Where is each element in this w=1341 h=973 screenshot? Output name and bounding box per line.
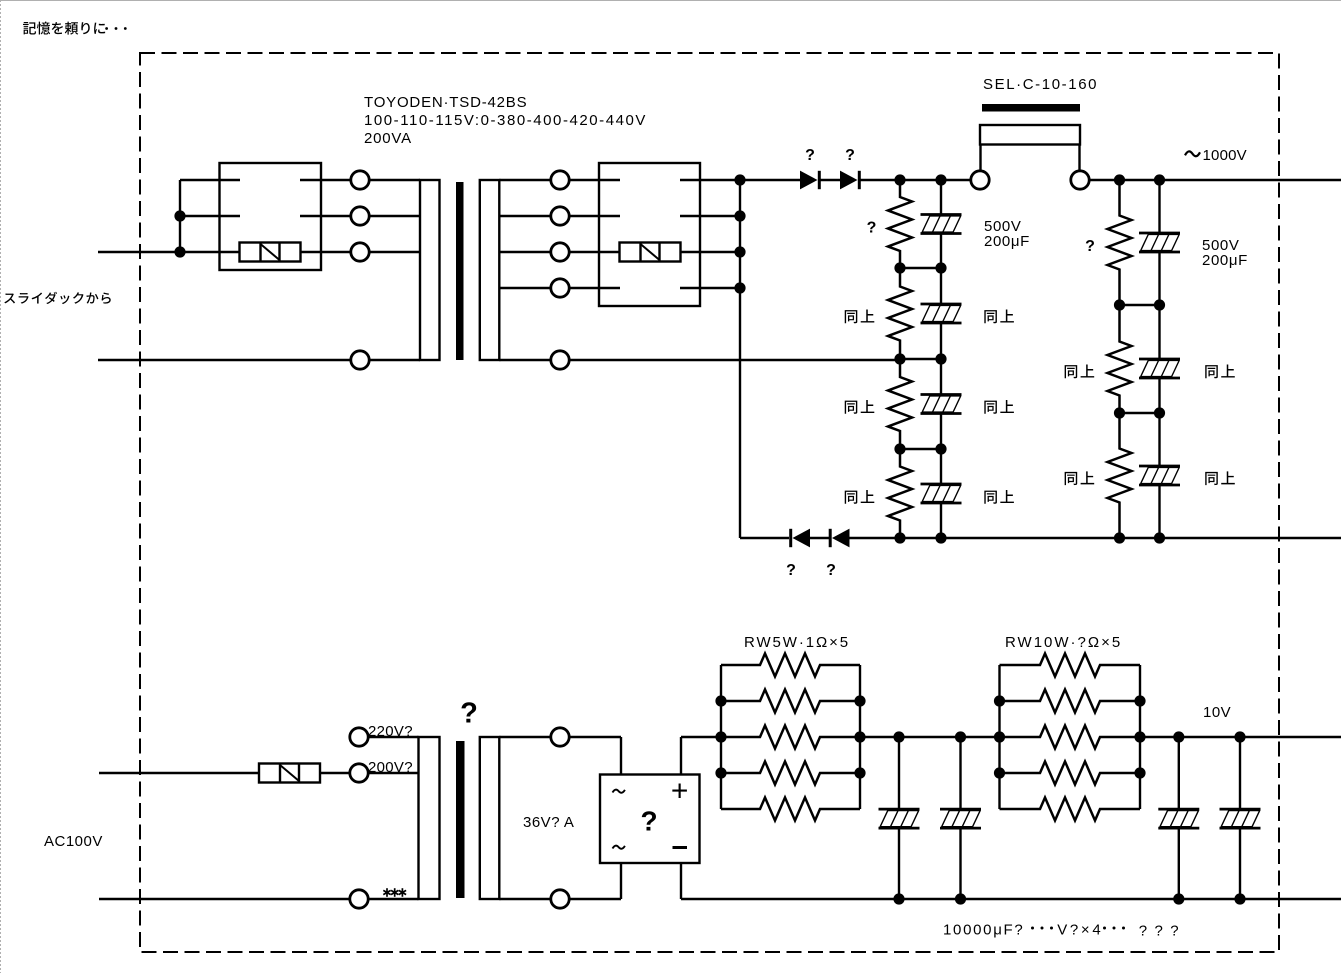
wire: TB1 out 3 (301, 251, 352, 253)
terminal: T1 primary tap 1 (351, 171, 369, 189)
wire: T1 sec common (499, 359, 551, 361)
resistor R10 (bank1) (721, 654, 860, 677)
svg-text:?: ? (640, 806, 657, 837)
node: bank1 left (715, 695, 726, 706)
wire: bottom return rail (850, 537, 1341, 539)
wire: plus to bank1 (681, 736, 721, 738)
node: ladder2 bottom R (1114, 532, 1125, 543)
label: tap *** asterisks (383, 888, 406, 897)
node: C11 bottom (1234, 893, 1245, 904)
resistor R12 (bank1) (721, 726, 860, 749)
terminal: T2 common (350, 890, 368, 908)
resistor R11 (bank1) (721, 690, 860, 713)
wire: bus corner to D3 (740, 537, 789, 539)
node: bus tap 4 (734, 282, 745, 293)
wire: T2 sec bottom (499, 898, 551, 900)
svg-text:+: + (671, 775, 689, 808)
node: C10 top (1173, 731, 1184, 742)
label: C6 同上 (1205, 365, 1235, 379)
wire: bridge AC in bottom (620, 863, 622, 899)
svg-text:?: ? (826, 562, 836, 579)
wire: T1 sec tap 2 (499, 215, 551, 217)
svg-text:?: ? (867, 220, 877, 237)
svg-text:?: ? (1085, 238, 1095, 255)
choke L1 core bar (982, 104, 1080, 112)
terminal: T1 primary common (351, 351, 369, 369)
fuse F2 (AC100V) (259, 764, 320, 783)
svg-text:RW5W·1Ω×5: RW5W·1Ω×5 (744, 634, 850, 651)
wire: TB2 in 1 (569, 179, 620, 181)
label: U1 AC in bottom ~ (613, 846, 625, 849)
diode D4 (830, 529, 849, 548)
resistor R13 (bank1) (721, 762, 860, 785)
diode D1 (800, 171, 819, 190)
bridge rectifier U1 body (600, 775, 700, 864)
diode D3 (791, 529, 810, 548)
node: bank2 left (994, 767, 1005, 778)
label: R7 同上 (1065, 471, 1095, 485)
wire: ladder1 row 4 link (900, 448, 941, 450)
node: bank2 right (1134, 731, 1145, 742)
terminal: T1 secondary tap 3 (551, 243, 569, 261)
svg-text:AC100V: AC100V (44, 833, 103, 850)
dashed border frame (140, 53, 1279, 952)
wire: TB1 out 1 (300, 179, 351, 181)
resistor R19 (bank2) (1000, 798, 1141, 821)
transformer T2 secondary winding (480, 737, 500, 899)
svg-text:TOYODEN·TSD-42BS: TOYODEN·TSD-42BS (364, 94, 527, 111)
fuse F3 (secondary) (620, 243, 681, 262)
node: C10 bottom (1173, 893, 1184, 904)
label: R4 同上 (845, 490, 875, 504)
svg-text:?: ? (786, 562, 796, 579)
node: bank1 left (715, 731, 726, 742)
wire: tap stub 420V (180, 215, 240, 217)
capacitor C11 10000uF (1220, 737, 1261, 899)
node: ladder2 row 2 R (1114, 299, 1125, 310)
terminal: T1 secondary common (551, 351, 569, 369)
wire: TB2 out 4 (680, 287, 740, 289)
node: ladder1 row 2 C (935, 262, 946, 273)
svg-text:?: ? (805, 147, 815, 164)
node: ladder1 row 3 C (935, 353, 946, 364)
transformer T1 primary winding (420, 180, 440, 360)
svg-text:SEL·C-10-160: SEL·C-10-160 (983, 76, 1098, 93)
svg-text:200μF: 200μF (1202, 252, 1248, 269)
wire: ladder1 row 2 link (900, 267, 941, 269)
terminal: T2 secondary top (551, 728, 569, 746)
node: ladder1 row 2 R (894, 262, 905, 273)
wire: D1 to D2 (819, 179, 840, 181)
wire: T2 sec bottom to bridge (569, 898, 621, 900)
capacitor C3 500V 200uF (921, 359, 962, 449)
wire: AC input line 2 (99, 898, 350, 900)
wire: TB2 out 3 (681, 251, 741, 253)
transformer T2 core (456, 741, 465, 898)
wire: T2 sec top to bridge (569, 736, 621, 738)
label: C7 同上 (1205, 471, 1235, 485)
wire: ladder1 row 3 link (900, 358, 941, 360)
capacitor C5 500V 200uF (1139, 180, 1180, 305)
capacitor C9 10000uF (940, 737, 981, 899)
node: ladder1 row 4 R (894, 443, 905, 454)
wire: ~1000V output rail (1089, 179, 1341, 181)
transformer T2 primary winding (419, 737, 440, 899)
label: caps note dots 1 (1031, 927, 1053, 930)
label: C2 同上 (984, 310, 1014, 324)
svg-text:10V: 10V (1203, 704, 1231, 721)
label: C3 同上 (984, 400, 1014, 414)
terminal: T2 secondary bottom (551, 890, 569, 908)
caption dots (105, 27, 127, 30)
resistor R14 (bank1) (721, 798, 860, 821)
svg-text:36V? A: 36V? A (523, 814, 574, 831)
node: C11 top (1234, 731, 1245, 742)
wire: U1 plus up (680, 737, 682, 775)
terminal: T1 secondary tap 4 (551, 279, 569, 297)
node: C9 top (955, 731, 966, 742)
wire: T1 sec tap 4 (499, 287, 551, 289)
wire: ladder2 row 3 link (1120, 412, 1160, 414)
wire: to T1 primary common (369, 359, 420, 361)
wire: 10V output rail (1140, 736, 1341, 738)
label: output ~1000V tilde (1185, 151, 1200, 156)
capacitor C1 500V 200uF (921, 180, 962, 268)
terminal: choke L1 right (1071, 171, 1089, 189)
node: bus tap 2 (734, 210, 745, 221)
node: bank2 right (1134, 767, 1145, 778)
wire: upper input line 2 (98, 359, 351, 361)
resistor R2 (bleeder) (888, 268, 912, 359)
terminal: T1 primary tap 3 (351, 243, 369, 261)
wire: common to T2 (368, 898, 419, 900)
resistor R6 (bleeder) (1108, 305, 1132, 413)
caption: 記憶を頼りに (23, 22, 105, 35)
wire: 220V tap to T2 (368, 736, 419, 738)
wire: TB2 out 2 (680, 215, 740, 217)
wire: to T1 primary 1 (369, 179, 420, 181)
node: bus tap 1 (734, 174, 745, 185)
svg-text:?: ? (460, 698, 478, 730)
resistor R7 (bleeder) (1108, 413, 1132, 538)
resistor R17 (bank2) (1000, 726, 1141, 749)
wire: tap feed vertical (179, 180, 181, 252)
node: bank2 left (994, 731, 1005, 742)
wire: to T1 primary 3 (369, 251, 420, 253)
capacitor C10 10000uF (1158, 737, 1199, 899)
node: ladder2 row 3 R (1114, 407, 1125, 418)
node: ladder1 bottom R (894, 532, 905, 543)
transformer T1 secondary winding (480, 180, 500, 360)
resistor R5 (bleeder) (1108, 180, 1132, 305)
label: R6 同上 (1065, 365, 1095, 379)
svg-text:200VA: 200VA (364, 130, 412, 147)
svg-text:200μF: 200μF (984, 233, 1030, 250)
svg-text:1000V: 1000V (1203, 147, 1247, 164)
wire: T1 sec tap 3 (499, 251, 551, 253)
terminal: T1 secondary tap 1 (551, 171, 569, 189)
wire: 200V tap to T2 (368, 772, 419, 774)
bank1 left rail (720, 665, 722, 809)
node: ladder2 row 3 C (1154, 407, 1165, 418)
svg-text:?: ? (845, 147, 855, 164)
label: R3 同上 (845, 400, 875, 414)
wire: tap stub 440V (180, 179, 240, 181)
node: ladder2 bottom C (1154, 532, 1165, 543)
wire: TB1 out 2 (300, 215, 351, 217)
capacitor C6 500V 200uF (1139, 305, 1180, 413)
node: ladder1 row 4 C (935, 443, 946, 454)
svg-text:10000μF?: 10000μF? (943, 922, 1024, 939)
transformer T1 core (456, 182, 464, 360)
wire: TB2 out 1 (680, 179, 740, 181)
capacitor C8 10000uF (879, 737, 920, 899)
node: bank1 right (854, 767, 865, 778)
terminal box TB2 (599, 163, 700, 306)
node: ladder2 top C (1154, 174, 1165, 185)
wire: F2 to terminal (320, 772, 350, 774)
node: ladder2 top R (1114, 174, 1125, 185)
svg-text:V?×4: V?×4 (1057, 922, 1103, 939)
wire: D2 to choke terminal (859, 179, 971, 181)
node: ladder2 row 2 C (1154, 299, 1165, 310)
wire: AC input line 1 (99, 772, 259, 774)
capacitor C7 500V 200uF (1139, 413, 1180, 538)
bank1 right rail (859, 665, 861, 809)
terminal: T1 primary tap 2 (351, 207, 369, 225)
fuse F1 (primary) (240, 243, 301, 262)
wire: bridge AC in top (620, 737, 622, 775)
label: スライダックから (input from slidac) (4, 292, 110, 304)
wire: T1 common to ladder1 mid (569, 359, 900, 361)
node: bank1 left (715, 767, 726, 778)
node: bank2 right (1134, 695, 1145, 706)
wire: TB2 in 2 (569, 215, 620, 217)
terminal box TB1 (220, 163, 322, 270)
resistor R1 (bleeder) (888, 180, 912, 268)
node: ladder1 top C (935, 174, 946, 185)
capacitor C4 500V 200uF (921, 449, 962, 538)
wire: to T1 primary 2 (369, 215, 420, 217)
wire: TB2 in 3 (569, 251, 620, 253)
resistor R18 (bank2) (1000, 762, 1141, 785)
label: C4 同上 (984, 490, 1014, 504)
node: C8 bottom (893, 893, 904, 904)
wire: top rail to D1 (740, 179, 800, 181)
label: R2 同上 (845, 310, 875, 324)
label: caps note dots 2 (1103, 927, 1125, 930)
wire: TB2 in 4 (569, 287, 620, 289)
node: ladder1 bottom C (935, 532, 946, 543)
node: bank2 left (994, 695, 1005, 706)
label: U1 AC in top ~ (613, 790, 625, 793)
svg-text:RW10W·?Ω×5: RW10W·?Ω×5 (1005, 634, 1122, 651)
terminal: T2 tap 220V (350, 728, 368, 746)
resistor R16 (bank2) (1000, 690, 1141, 713)
wire: T1 sec tap 1 (499, 179, 551, 181)
node: ladder1 top R (894, 174, 905, 185)
resistor R15 (bank2) (1000, 654, 1141, 677)
wire: U1 minus down (680, 863, 682, 899)
terminal: T2 tap 200V (350, 764, 368, 782)
node: bank1 right (854, 695, 865, 706)
svg-text:100-110-115V:0-380-400-420-440: 100-110-115V:0-380-400-420-440V (364, 112, 647, 129)
choke L1 winding (980, 125, 1080, 171)
bank2 right rail (1139, 665, 1141, 809)
terminal: choke L1 left (971, 171, 989, 189)
wire: minus / 0V rail (681, 898, 1341, 900)
node: bus tap 3 (734, 246, 745, 257)
capacitor C2 500V 200uF (921, 268, 962, 359)
wire: T2 sec top (499, 736, 551, 738)
resistor R4 (bleeder) (888, 449, 912, 538)
resistor R3 (bleeder) (888, 359, 912, 449)
svg-text:? ? ?: ? ? ? (1139, 923, 1181, 940)
wire: bank1 to bank2 (860, 736, 1000, 738)
wire: HV bus vertical (739, 180, 741, 538)
node: tap feed junction 2 (174, 246, 185, 257)
node: C8 top (893, 731, 904, 742)
diode D2 (840, 171, 859, 190)
terminal: T1 secondary tap 2 (551, 207, 569, 225)
bank2 left rail (998, 665, 1000, 809)
node: tap feed junction 1 (174, 210, 185, 221)
node: ladder1 row 3 R (894, 353, 905, 364)
wire: D3 to D4 (810, 537, 831, 539)
node: C9 bottom (955, 893, 966, 904)
node: bank1 right (854, 731, 865, 742)
label: U1 minus (673, 846, 688, 849)
wire: upper input line 1 (98, 251, 240, 253)
wire: ladder2 row 2 link (1120, 304, 1160, 306)
